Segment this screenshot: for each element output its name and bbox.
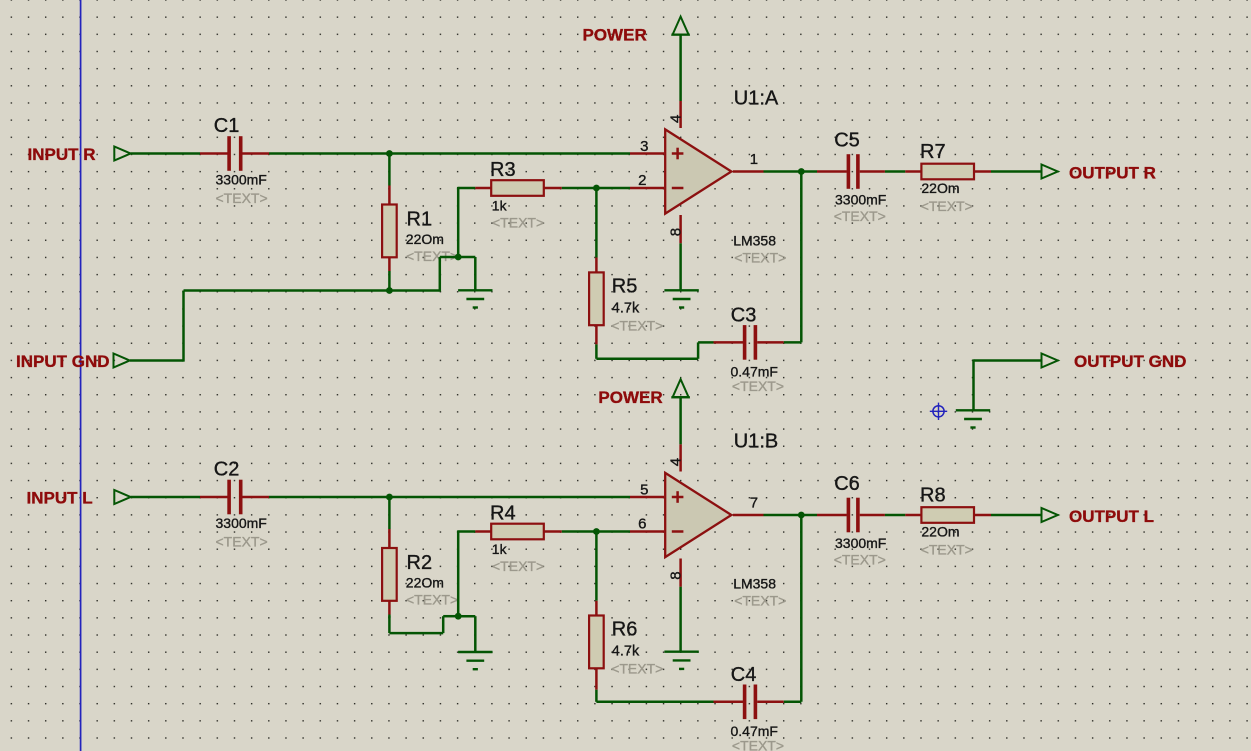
wire R7 to OUTPUT R [991, 170, 1042, 173]
svg-text:3300mF: 3300mF [835, 192, 886, 208]
svg-text:<TEXT>: <TEXT> [732, 738, 784, 751]
wire C4 to output node [784, 701, 802, 704]
svg-text:<TEXT>: <TEXT> [834, 208, 886, 224]
terminal OUTPUT R [1042, 165, 1058, 179]
wire C3 to output node [784, 341, 802, 344]
pin 2 (-) lead [630, 187, 664, 190]
ground pin 8 U1:B [664, 651, 698, 653]
svg-text:<TEXT>: <TEXT> [834, 552, 886, 568]
svg-text:22Om: 22Om [406, 231, 444, 247]
terminal INPUT GND [114, 354, 130, 368]
capacitor C4 [714, 685, 784, 720]
svg-text:<TEXT>: <TEXT> [492, 215, 544, 231]
capacitor C1 [200, 136, 269, 171]
wire junction to ground [458, 256, 475, 259]
svg-text:U1:A: U1:A [734, 88, 779, 110]
node inverting junction [593, 185, 600, 192]
svg-text:3: 3 [640, 138, 648, 155]
svg-text:LM358: LM358 [733, 233, 776, 249]
svg-text:22Om: 22Om [921, 524, 959, 540]
wire OUTPUT GND to ground [974, 359, 1042, 362]
capacitor C5 [817, 154, 885, 189]
svg-text:C5: C5 [834, 130, 860, 152]
svg-text:U1:B: U1:B [734, 431, 778, 453]
resistor R1 [382, 154, 397, 291]
wire INPUT R to C1 [131, 152, 200, 155]
svg-text:INPUT R: INPUT R [28, 145, 96, 164]
wire pin 7 to C6 [764, 514, 818, 517]
op-amp U1:B [665, 473, 731, 557]
resistor R5 [589, 188, 604, 359]
wire INPUT GND to rail [130, 359, 184, 362]
svg-text:OUTPUT R: OUTPUT R [1069, 164, 1156, 183]
svg-text:R2: R2 [407, 552, 433, 574]
svg-text:8: 8 [667, 571, 684, 579]
ground pin 8 U1:A [664, 289, 698, 291]
svg-text:7: 7 [750, 494, 758, 511]
svg-text:4.7k: 4.7k [612, 300, 640, 316]
svg-text:R7: R7 [920, 141, 946, 163]
svg-text:6: 6 [638, 516, 646, 533]
svg-text:<TEXT>: <TEXT> [732, 378, 784, 394]
wire R2 bottom elbow to junction B [388, 616, 391, 633]
pin 8 V- lead [679, 559, 682, 587]
capacitor C2 [200, 480, 269, 515]
pin 1 output lead [733, 170, 764, 173]
wire rail to junction A [439, 257, 442, 292]
svg-text:R3: R3 [490, 159, 516, 181]
pin 3 (+) lead [630, 152, 664, 155]
wire R3 to op-amp pin 2 [562, 187, 630, 190]
origin marker [933, 406, 944, 417]
node output junction [798, 512, 805, 519]
svg-text:2: 2 [638, 172, 646, 189]
pin 5 (+) lead [630, 496, 664, 499]
wire C6 to R8 [885, 514, 905, 517]
svg-text:<TEXT>: <TEXT> [216, 534, 268, 550]
svg-text:0.47mF: 0.47mF [731, 723, 778, 739]
wire C5 to R7 [885, 170, 905, 173]
svg-text:OUTPUT L: OUTPUT L [1069, 507, 1154, 526]
capacitor C6 [817, 498, 885, 533]
wire C1 to op-amp pin 3 [269, 152, 630, 155]
resistor R7 [905, 164, 991, 180]
pin 4 V+ lead [679, 444, 682, 471]
node input junction [386, 494, 393, 501]
wire R5 to C3 [596, 358, 698, 361]
svg-text:OUTPUT GND: OUTPUT GND [1074, 352, 1186, 371]
resistor R6 [589, 532, 604, 702]
svg-text:INPUT GND: INPUT GND [16, 352, 110, 371]
wire R6 to C4 [596, 701, 715, 704]
svg-text:<TEXT>: <TEXT> [406, 592, 458, 608]
svg-text:C2: C2 [214, 458, 240, 480]
svg-text:0.47mF: 0.47mF [731, 363, 778, 379]
wire ground rail [184, 289, 440, 292]
svg-text:3300mF: 3300mF [216, 515, 267, 531]
wire R3 branch [458, 187, 475, 190]
svg-text:3300mF: 3300mF [216, 172, 267, 188]
svg-text:4: 4 [667, 458, 684, 466]
svg-text:R1: R1 [407, 209, 433, 231]
op-amp U1:A [665, 129, 731, 213]
svg-text:C3: C3 [731, 304, 757, 326]
svg-text:5: 5 [640, 482, 648, 499]
terminal INPUT R [114, 147, 130, 161]
svg-text:<TEXT>: <TEXT> [734, 593, 786, 609]
svg-text:1k: 1k [492, 541, 508, 557]
svg-text:R4: R4 [490, 503, 516, 525]
power terminal U1:B [673, 379, 689, 397]
svg-text:<TEXT>: <TEXT> [921, 198, 973, 214]
svg-text:LM358: LM358 [733, 576, 776, 592]
resistor R8 [905, 507, 991, 523]
svg-text:22Om: 22Om [406, 575, 444, 591]
node R1 bottom on rail [386, 287, 393, 294]
svg-text:<TEXT>: <TEXT> [611, 661, 663, 677]
svg-text:C4: C4 [731, 664, 757, 686]
node junction B [455, 613, 462, 620]
node inverting junction [593, 528, 600, 535]
svg-text:<TEXT>: <TEXT> [216, 190, 268, 206]
svg-text:<TEXT>: <TEXT> [611, 317, 663, 333]
resistor R2 [382, 497, 397, 618]
svg-text:<TEXT>: <TEXT> [734, 250, 786, 266]
svg-text:<TEXT>: <TEXT> [921, 542, 973, 558]
wire junction to ground [458, 615, 475, 618]
svg-text:<TEXT>: <TEXT> [492, 558, 544, 574]
terminal INPUT L [114, 490, 130, 504]
power terminal U1:A [673, 17, 689, 35]
svg-text:4.7k: 4.7k [612, 644, 640, 660]
ground near R2 [458, 651, 492, 653]
svg-text:R6: R6 [612, 619, 638, 641]
ground output [956, 409, 990, 411]
svg-text:1: 1 [750, 151, 758, 168]
terminal OUTPUT L [1042, 508, 1058, 522]
svg-text:8: 8 [667, 228, 684, 236]
svg-text:3300mF: 3300mF [835, 535, 886, 551]
svg-text:INPUT L: INPUT L [27, 489, 93, 508]
svg-text:1k: 1k [492, 198, 508, 214]
svg-text:C6: C6 [834, 473, 860, 495]
svg-text:POWER: POWER [583, 26, 647, 45]
wire R4 to op-amp pin 6 [562, 530, 630, 533]
svg-text:22Om: 22Om [921, 180, 959, 196]
ground near R1 [458, 289, 492, 291]
wire INPUT L to C2 [131, 496, 200, 499]
wire R8 to OUTPUT L [991, 514, 1042, 517]
pin 8 V- lead [679, 215, 682, 243]
terminal OUTPUT GND [1042, 354, 1058, 368]
svg-text:R5: R5 [612, 275, 638, 297]
resistor R4 [475, 524, 562, 540]
pin 6 (-) lead [630, 530, 664, 533]
svg-text:4: 4 [667, 115, 684, 123]
wire pin 1 to C5 [764, 170, 818, 173]
node input junction [386, 150, 393, 157]
pin 4 V+ lead [679, 101, 682, 128]
resistor R3 [475, 180, 562, 196]
wire R4 branch [458, 530, 475, 533]
node junction A [455, 254, 462, 261]
wire C2 to op-amp pin 5 [269, 496, 630, 499]
node output junction [798, 168, 805, 175]
capacitor C3 [714, 325, 784, 360]
svg-text:C1: C1 [214, 115, 240, 137]
svg-text:POWER: POWER [598, 388, 662, 407]
svg-text:R8: R8 [920, 485, 946, 507]
pin 7 output lead [733, 514, 764, 517]
